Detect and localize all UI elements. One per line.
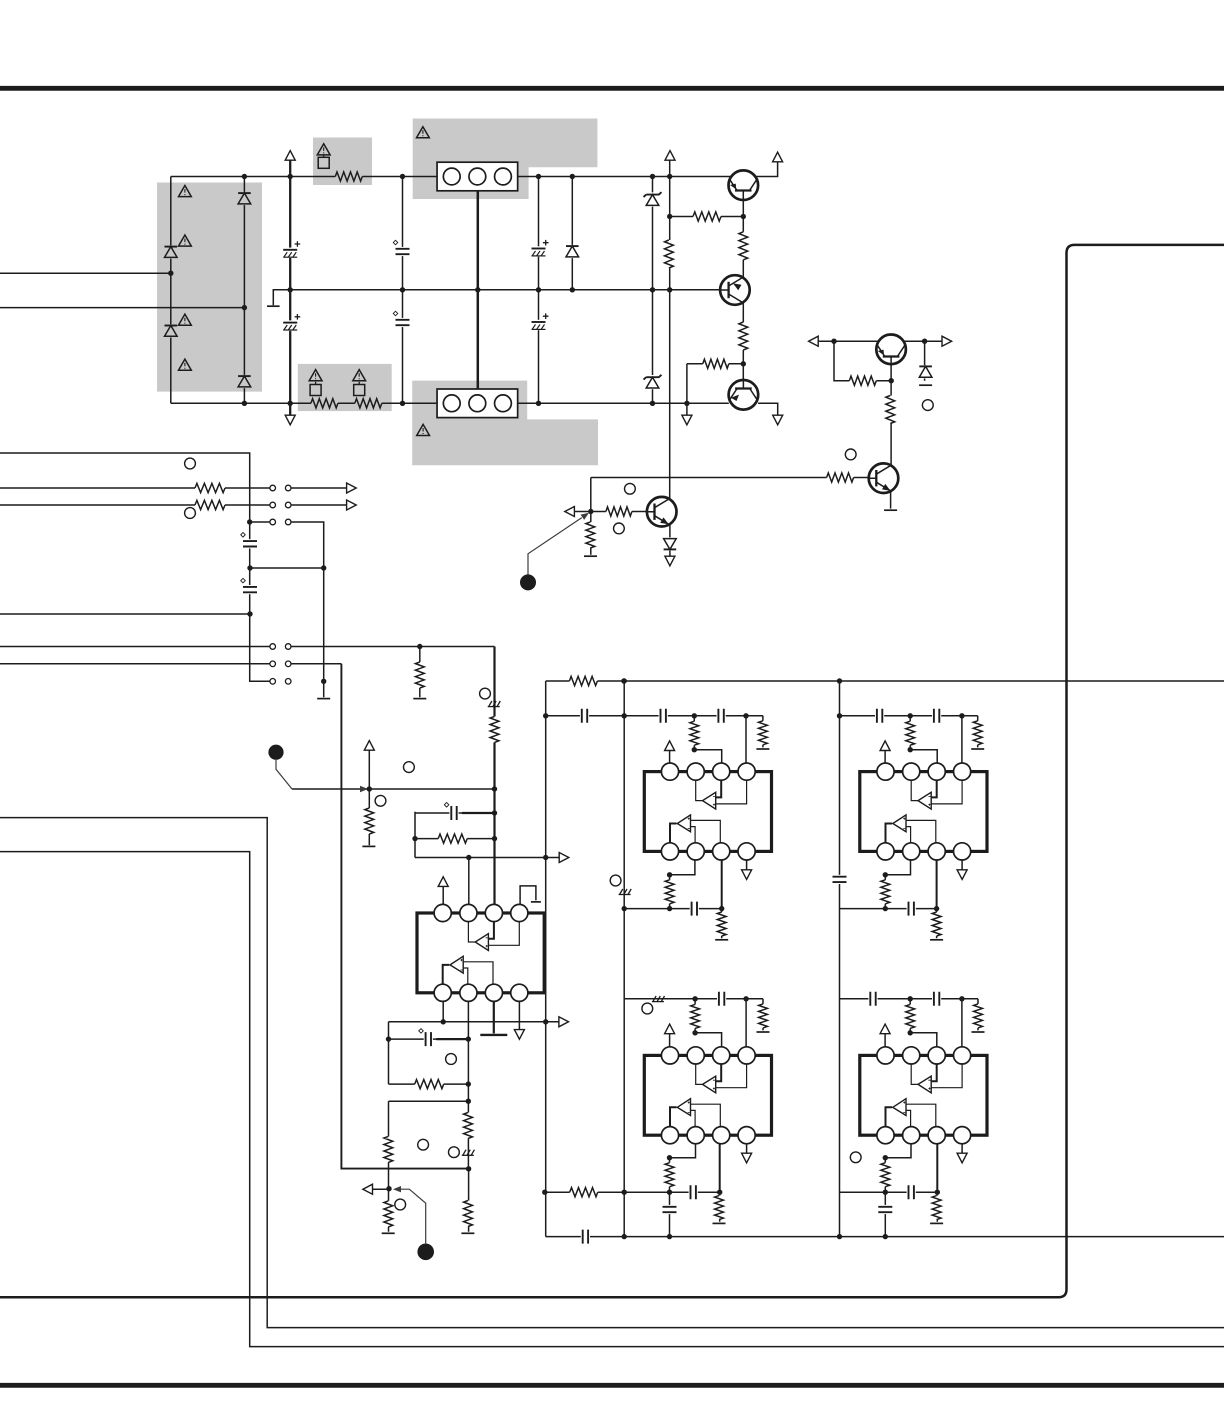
wire column x624: [623, 681, 625, 1237]
chassis-mount mark Z1: [488, 706, 500, 708]
junction: [242, 305, 247, 310]
resistor R26: [972, 721, 983, 745]
ground GND2: [919, 384, 932, 386]
zener diode ZD1: [645, 192, 659, 206]
capacitor (polarized) C2: [282, 320, 298, 330]
resistor R29: [690, 1004, 701, 1028]
junction: [741, 214, 746, 219]
adjustment point VR8: [404, 762, 415, 773]
connector pins P3: [270, 519, 276, 525]
resistor R22: [757, 721, 768, 745]
junction: [622, 1234, 627, 1239]
wire diode column: [571, 177, 573, 290]
wire row D left: [250, 521, 270, 523]
junction: [400, 401, 405, 406]
wire reg rail: [814, 340, 948, 342]
junction: [908, 1030, 913, 1035]
wire zener column: [652, 177, 654, 404]
junction: [247, 565, 252, 570]
capacitor C9: [449, 806, 458, 821]
wire ctr up stub: [442, 886, 444, 905]
junction: [692, 747, 697, 752]
capacitor C17: [932, 708, 941, 723]
junction: [883, 1155, 888, 1160]
adjustment point VR16: [446, 1054, 457, 1065]
resistor R6: [693, 211, 721, 223]
wire trim stub: [373, 1188, 390, 1190]
junction: [667, 287, 672, 292]
ground GND14: [972, 1031, 985, 1033]
capacitor (polarized) C5: [531, 246, 547, 256]
adjustment point VR2: [845, 449, 856, 460]
diode D6: [918, 365, 932, 378]
wiper arrow: [360, 786, 368, 792]
junction: [536, 287, 541, 292]
diode D1: [164, 245, 178, 258]
wire row F left: [0, 646, 270, 648]
wire B bottom row: [840, 860, 963, 938]
wire B cap row: [840, 716, 978, 763]
wire AC input 1: [0, 272, 171, 274]
wire Q2 emitter: [742, 303, 744, 381]
junction: [247, 611, 252, 616]
wire rail y1236: [546, 1236, 1224, 1238]
resistor R25: [905, 721, 916, 745]
zener diode ZD2: [645, 375, 659, 389]
ground GND18: [531, 901, 541, 903]
wire input row C right: [291, 504, 346, 506]
junction: [412, 836, 417, 841]
fusible-resistor symbol FS1: [318, 157, 329, 168]
diode D7: [663, 537, 677, 550]
ground GND7: [362, 845, 375, 847]
wire smoothing rail: [289, 161, 291, 415]
arrow A1: [285, 151, 295, 161]
adjustment point VR12: [850, 1152, 861, 1163]
wire Q6 base feed: [591, 477, 870, 479]
junction: [367, 786, 372, 791]
resistor R35: [972, 1004, 983, 1028]
junction: [466, 1099, 471, 1104]
wire main unit boundary bracket: [0, 245, 1224, 1297]
adjustment point VR15: [395, 1199, 406, 1210]
resistor R21: [689, 721, 700, 745]
junction: [692, 713, 697, 718]
junction: [543, 855, 548, 860]
resistor R40: [383, 1201, 394, 1227]
wire input row B right: [291, 487, 346, 489]
arrow A6: [773, 415, 783, 425]
resistor R41: [462, 1113, 473, 1139]
adjustment point VR10: [610, 875, 621, 886]
junction: [667, 872, 672, 877]
wire Q5 emitter chain: [890, 357, 892, 466]
capacitor C11: [832, 875, 847, 884]
junction: [400, 174, 405, 179]
adjustment point VR4: [614, 523, 625, 534]
adjustment point VR7: [185, 508, 196, 519]
transistor Q2: [720, 275, 750, 305]
resistor R28: [931, 912, 942, 936]
wire D pin1 stub: [884, 1034, 886, 1047]
resistor R23: [664, 880, 675, 904]
wire row D right: [291, 522, 324, 697]
wire ctr pin2 col: [467, 1001, 469, 1232]
resistor R39: [383, 1136, 394, 1162]
junction: [542, 1190, 547, 1195]
capacitor C23: [932, 991, 941, 1006]
junction: [621, 678, 626, 683]
warning triangle W3: [353, 370, 366, 381]
resistor R9: [849, 375, 876, 387]
resistor R4: [663, 240, 674, 268]
wire Q1 collector: [670, 200, 744, 277]
junction: [543, 1019, 548, 1024]
wire adjust link: [528, 518, 582, 575]
connector pins P5: [270, 661, 276, 667]
wire ctr fb box: [389, 1022, 469, 1232]
warning triangle W4: [179, 186, 192, 197]
page bottom border: [0, 1383, 1224, 1388]
wire -rail bottom right: [758, 403, 778, 415]
connector pins P1: [270, 485, 276, 491]
wire cap tap: [250, 567, 324, 569]
resistor R38: [415, 1078, 444, 1090]
wire row E: [0, 613, 250, 615]
capacitor C13: [659, 708, 668, 723]
junction: [288, 401, 293, 406]
arrow A12: [347, 500, 357, 510]
op-amp IC U1: [644, 763, 771, 860]
resistor R15: [195, 499, 225, 511]
resistor R8: [703, 358, 729, 370]
junction: [288, 287, 293, 292]
wire trim column: [590, 478, 592, 555]
junction: [492, 836, 497, 841]
junction: [650, 287, 655, 292]
wire D pin3 col: [936, 1144, 938, 1193]
transistor Q4: [876, 335, 906, 365]
capacitor C20: [689, 1185, 698, 1200]
fusible-resistor symbol FS3: [354, 385, 365, 396]
wire ctr pin1 col: [442, 1001, 444, 1022]
warning triangle W2: [309, 370, 322, 381]
resistor R5: [738, 232, 749, 260]
connector CN1: [437, 162, 518, 191]
adjustment point VR1: [922, 400, 933, 411]
wire A pin3 col: [721, 860, 723, 908]
wire rail y681: [546, 680, 1224, 682]
connector pins P4: [270, 644, 276, 650]
junction: [536, 401, 541, 406]
capacitor C26: [424, 1032, 433, 1047]
junction: [288, 174, 293, 179]
wire bleed resistor leg: [419, 647, 421, 698]
capacitor (polarized) C1: [282, 248, 298, 258]
junction: [492, 786, 497, 791]
wire AC input 2: [0, 307, 244, 309]
arrow A3: [773, 152, 783, 162]
junction: [959, 996, 964, 1001]
wire +rail top: [171, 162, 778, 177]
wire C pin3 col: [719, 1144, 721, 1193]
junction: [466, 1081, 471, 1086]
junction: [321, 679, 326, 684]
adjustment point VR11: [642, 1003, 653, 1014]
junction: [441, 1019, 446, 1024]
resistor R17: [489, 716, 500, 742]
capacitor C8: [243, 585, 258, 594]
wire pot link: [276, 760, 292, 789]
ground GND11: [930, 939, 943, 941]
junction: [667, 214, 672, 219]
junction: [667, 1155, 672, 1160]
junction: [667, 174, 672, 179]
junction: [922, 339, 927, 344]
ground bar pin3: [480, 1034, 507, 1036]
junction: [935, 1190, 940, 1195]
wire A bottom row: [624, 860, 746, 938]
chassis-mount mark Z2: [619, 894, 631, 896]
wire Q4 base feed: [574, 511, 647, 513]
junction: [717, 1190, 722, 1195]
ground GND16: [382, 1232, 395, 1234]
wire Q4 emitter: [669, 525, 671, 556]
wire zener leg: [924, 341, 926, 381]
fusible-resistor symbol FS2: [310, 385, 321, 396]
wire input row C left: [0, 504, 270, 506]
wire column x545: [545, 681, 547, 1237]
junction: [386, 1036, 391, 1041]
resistor R30: [757, 1004, 768, 1028]
wire B pin1 stub: [884, 751, 886, 764]
junction: [883, 906, 888, 911]
junction: [883, 1190, 888, 1195]
junction: [667, 906, 672, 911]
wire pot column: [368, 750, 370, 845]
chassis-mount mark Z4: [462, 1154, 474, 1156]
junction: [934, 906, 939, 911]
wire NFB box: [415, 812, 495, 858]
wire -rail bottom: [171, 402, 729, 404]
resistor R7: [738, 322, 749, 350]
arrow A15: [665, 741, 675, 751]
arrow A11: [347, 483, 357, 493]
arrow A24: [514, 1030, 524, 1040]
junction: [667, 1190, 672, 1195]
arrow A14: [559, 853, 569, 863]
arrow A22: [957, 1153, 967, 1163]
junction: [650, 401, 655, 406]
arrow A7: [809, 336, 819, 346]
arrow A9: [565, 507, 575, 517]
wire reg base loop: [834, 341, 891, 381]
resistor R3: [355, 398, 382, 410]
op-amp IC U2: [860, 763, 987, 860]
junction: [466, 1036, 471, 1041]
junction: [570, 174, 575, 179]
test point (solder pad) TP1: [520, 574, 536, 590]
test point (solder pad) TP2: [268, 745, 283, 760]
capacitor C7: [243, 539, 258, 548]
wire C pin1 stub: [669, 1034, 671, 1047]
capacitor C12: [580, 708, 589, 723]
warning triangle W1: [317, 144, 330, 155]
wire NFB thick seg: [462, 812, 495, 814]
wire bus inner L: [0, 852, 1224, 1347]
diode D4: [237, 375, 251, 388]
capacitor C14: [717, 708, 726, 723]
arrow A16: [742, 870, 752, 880]
transistor Q5: [869, 463, 899, 493]
junction: [570, 287, 575, 292]
arrow A21: [880, 1024, 890, 1034]
wire pin2 column: [468, 858, 470, 906]
ground GND4: [584, 555, 597, 557]
wire D top row: [840, 999, 979, 1047]
capacitor C10: [581, 1229, 590, 1244]
capacitor C15: [690, 901, 699, 916]
junction: [837, 713, 842, 718]
adjustment point VR9: [375, 795, 386, 806]
ground GND6: [413, 698, 426, 700]
resistor R34: [905, 1004, 916, 1028]
junction: [959, 713, 964, 718]
junction: [588, 509, 593, 514]
arrow A25: [438, 877, 448, 887]
ground GND10: [971, 748, 984, 750]
wire center tap: [273, 290, 290, 306]
wire row G left: [0, 663, 270, 665]
adjustment point VR3: [625, 483, 636, 494]
junction: [536, 174, 541, 179]
warning triangle W8: [417, 127, 430, 138]
highlight region G1: [157, 183, 262, 392]
ground GND1: [267, 305, 280, 307]
junction: [168, 271, 173, 276]
junction: [622, 906, 627, 911]
transistor Q1: [729, 170, 759, 200]
junction: [743, 996, 748, 1001]
resistor R16: [414, 662, 425, 688]
highlight region G2: [313, 138, 372, 186]
resistor R31: [570, 1186, 598, 1198]
junction: [417, 644, 422, 649]
junction: [622, 713, 627, 718]
wire column x839: [839, 681, 841, 1237]
wire D bottom row: [840, 1144, 963, 1237]
junction: [492, 810, 497, 815]
arrow A4: [285, 415, 295, 425]
resistor R24: [716, 912, 727, 936]
arrow A18: [957, 870, 967, 880]
capacitor C4: [395, 318, 410, 327]
resistor R42: [462, 1201, 473, 1227]
junction: [692, 996, 697, 1001]
capacitor C21: [662, 1205, 677, 1214]
junction: [622, 1190, 627, 1195]
junction: [543, 713, 548, 718]
junction: [889, 378, 894, 383]
resistor R19: [438, 833, 467, 845]
wire ctr pin4 col: [518, 1001, 520, 1029]
arrow A20: [742, 1153, 752, 1163]
junction: [400, 287, 405, 292]
diode D3: [237, 192, 251, 205]
wire bridge right leg: [243, 177, 245, 404]
junction: [908, 713, 913, 718]
ground GND3: [884, 509, 897, 511]
resistor R33: [713, 1196, 724, 1220]
warning triangle W5: [179, 235, 192, 246]
adjustment point VR5: [480, 688, 491, 699]
capacitor C24: [907, 1185, 916, 1200]
wire Q3 base branch: [687, 364, 743, 404]
wire gnd stub: [686, 403, 688, 415]
capacitor C19: [717, 991, 726, 1006]
capacitor C22: [868, 991, 877, 1006]
junction: [837, 1234, 842, 1239]
diode D5: [565, 245, 579, 258]
warning triangle W6: [179, 314, 192, 325]
wire long column x341: [341, 664, 468, 1169]
resistor R11: [827, 472, 854, 484]
wire filter column 1: [402, 177, 404, 404]
highlight region G5 (bottom connector): [412, 381, 598, 466]
highlight region G4 (top connector): [413, 119, 598, 200]
op-amp IC U5: [417, 904, 544, 1001]
wire B pin3 col: [936, 860, 938, 908]
resistor R37: [931, 1196, 942, 1220]
junction: [247, 519, 252, 524]
capacitor C16: [875, 708, 884, 723]
arrow A13: [364, 741, 374, 751]
junction: [667, 1234, 672, 1239]
junction: [475, 287, 480, 292]
transistor Q3: [729, 380, 759, 410]
wire pot feed: [292, 788, 495, 790]
warning triangle W9: [417, 424, 430, 435]
ground GND5: [317, 698, 330, 700]
arrow A26: [363, 1184, 373, 1194]
wire C top row: [624, 999, 763, 1047]
junction: [831, 339, 836, 344]
adjustment point VR14: [449, 1147, 460, 1158]
junction: [321, 565, 326, 570]
wire ctr flag: [520, 886, 536, 906]
junction: [719, 906, 724, 911]
wire row G right: [291, 663, 341, 665]
wire A cap row: [546, 716, 763, 763]
junction: [908, 996, 913, 1001]
adjustment point VR6: [185, 458, 196, 469]
junction: [908, 747, 913, 752]
wire ctr thick seg: [436, 1038, 468, 1040]
test point (solder pad) TP3: [417, 1244, 434, 1261]
wire bridge left leg: [170, 177, 172, 404]
connector pins P6: [270, 679, 276, 685]
wire mid rail: [290, 289, 736, 291]
ground GND15: [930, 1222, 943, 1224]
warning triangle W7: [179, 359, 192, 370]
wire input row B left: [0, 487, 270, 489]
wire filter column 2: [538, 177, 540, 404]
wire feed column x494: [493, 647, 495, 906]
resistor R27: [880, 880, 891, 904]
wire C bottom row: [545, 1144, 747, 1237]
op-amp IC U3: [644, 1047, 771, 1144]
wire input row A: [0, 453, 270, 681]
